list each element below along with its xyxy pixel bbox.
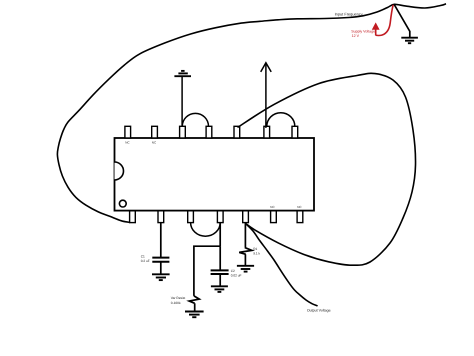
wire: big input loop from bottom pin 1 around left side over the top to right [57,4,446,223]
svg-text:0-100k: 0-100k [171,301,181,305]
pin 7 [297,211,303,223]
capacitor C1 [152,258,169,262]
wire: arc jump between top pins 9 and 8 [267,113,295,127]
wire: bottom pin 4 down, jog left to variable resistor [194,223,220,296]
wire: stem from top pin 12 up to inverted ground [181,76,183,126]
svg-text:12 V: 12 V [352,34,360,38]
top pins row [125,126,298,138]
ground (C2) [211,286,228,292]
pin 4 [217,211,223,223]
ground (C1) [152,274,170,280]
wire: bottom U arc between bottom pins 3 and 4 [191,223,221,237]
svg-text:0.2 uF: 0.2 uF [141,259,150,263]
pin 1 indicator dot [119,200,126,207]
wire: C1 to ground [160,262,162,275]
svg-text:Output Voltage: Output Voltage [307,308,331,312]
ground (top right) [401,38,418,44]
pin 10 [234,126,240,138]
pin 9 [264,126,270,138]
capacitor C2 [211,270,229,274]
svg-text:R1: R1 [253,247,257,251]
wire: feedback loop from bottom pin 5 around right side up to top pin 10 [238,73,416,265]
bottom pins row [130,211,303,223]
pin 8 [292,126,298,138]
ground (R1) [237,266,254,272]
ground (inverted, above pin 12) [174,71,191,76]
wire: arc jump between top pins 12 and 11 [182,113,208,126]
wire: bottom pin 5 down to R1 [244,223,246,248]
wire: from loop peak down to top-right ground [394,5,410,38]
ground (variable resistor) [185,312,204,318]
pin 14 [125,126,131,138]
IC U1 (14-pin DIP body) [115,138,315,211]
pin 5 [243,211,249,223]
svg-text:0.02 uF: 0.02 uF [231,274,242,278]
wire: pin 4 line down to C2 [219,246,221,270]
wire: R1 to ground [244,254,246,265]
resistor VarResist zigzag [189,296,199,303]
resistor R1 zigzag [239,248,252,255]
svg-text:Input Frequency: Input Frequency [335,12,363,17]
pin 11 [206,126,212,138]
pin 12 [180,126,186,138]
svg-text:C2: C2 [231,269,235,273]
wire: C2 to ground [219,274,221,286]
notch [115,162,124,180]
pin 1 [130,211,136,223]
wire: vertical arrow up from top pin 9 [261,63,272,128]
pin 3 [188,211,194,223]
svg-text:Supply Voltage: Supply Voltage [351,29,375,33]
wire: bottom pin 2 down to C1 [160,223,162,258]
wire: zigzag to ground [194,303,196,311]
pin 2 [158,211,164,223]
supply voltage red curve with arrow [372,5,393,36]
wire: output voltage curve from bottom pin 5 [246,224,318,306]
pin 6 [271,211,277,223]
svg-text:9.1 k: 9.1 k [253,251,260,255]
svg-text:Var Resist: Var Resist [171,296,186,300]
pin 13 [152,126,158,138]
svg-text:C1: C1 [141,254,145,258]
